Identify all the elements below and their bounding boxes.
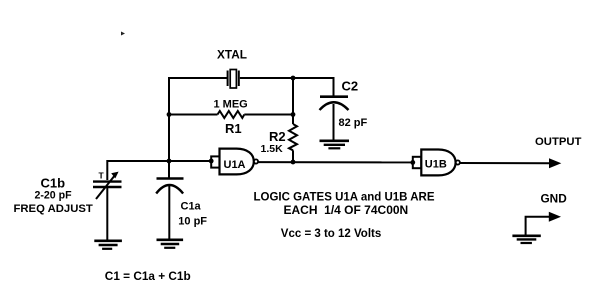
ground: GND symbol with arrow — [512, 212, 561, 243]
U1A output bubble — [254, 159, 258, 163]
wire: right rail lower (R2 to output wire) — [292, 150, 294, 162]
wire: gate input row (C1b corner to U1A) — [107, 161, 211, 180]
ground: below C1b — [94, 241, 122, 249]
node: crystal/R2/C2 junction — [291, 76, 296, 81]
svg-text:1.5K: 1.5K — [261, 143, 284, 155]
capacitor C2 — [320, 97, 349, 140]
node: R2/output junction — [291, 160, 296, 165]
U1A tied-input box — [211, 156, 219, 167]
svg-text:XTAL: XTAL — [217, 48, 247, 62]
wire: R1 row left segment — [168, 114, 218, 116]
svg-text:C1a: C1a — [181, 201, 202, 213]
svg-text:U1A: U1A — [224, 159, 246, 171]
arrowhead OUTPUT — [549, 158, 561, 168]
U1B tied-input box — [413, 157, 422, 168]
wire: right rail upper (junction to R2) — [292, 78, 294, 124]
node: U1B input junction — [410, 160, 415, 165]
svg-text:U1B: U1B — [425, 159, 447, 171]
svg-text:T: T — [99, 171, 105, 181]
svg-text:R2: R2 — [269, 129, 286, 144]
node: U1A input junction — [209, 159, 214, 164]
svg-text:C2: C2 — [342, 79, 359, 94]
crystal XTAL — [228, 70, 239, 89]
wire: crystal row left segment — [168, 77, 227, 79]
svg-text:C1 = C1a + C1b: C1 = C1a + C1b — [105, 269, 191, 283]
svg-text:10 pF: 10 pF — [178, 216, 207, 228]
wire: C2 branch corner down — [333, 77, 335, 96]
wire: U1B output to arrow — [460, 162, 552, 164]
svg-text:Vcc = 3 to 12 Volts: Vcc = 3 to 12 Volts — [281, 228, 381, 240]
wire: crystal row right segment — [240, 77, 335, 79]
op-amp U1A (NAND gate body) — [220, 149, 254, 175]
wire: U1A output to U1B input — [258, 161, 413, 163]
svg-text:2-20 pF: 2-20 pF — [35, 190, 73, 202]
svg-text:OUTPUT: OUTPUT — [535, 136, 582, 148]
ground: below C2 — [320, 141, 350, 149]
node: input row / C1a rail junction — [167, 159, 172, 164]
svg-text:1 MEG: 1 MEG — [214, 99, 248, 111]
svg-text:R1: R1 — [225, 121, 242, 136]
svg-text:GND: GND — [541, 192, 568, 206]
U1B output bubble — [456, 160, 460, 164]
capacitor C1b (variable) — [93, 172, 122, 240]
svg-text:82 pF: 82 pF — [339, 117, 368, 129]
svg-text:C1b: C1b — [41, 175, 66, 190]
wire: R1 row right segment — [244, 114, 293, 116]
svg-text:LOGIC GATES U1A and U1B ARE: LOGIC GATES U1A and U1B ARE — [254, 192, 435, 204]
wire: top loop left vertical rail — [168, 77, 170, 178]
svg-text:EACH 1/4 OF 74C00N: EACH 1/4 OF 74C00N — [284, 203, 409, 217]
stray mark top-left — [121, 32, 125, 36]
op-amp U1B (NAND gate body) — [421, 150, 455, 176]
node: R1 left junction — [167, 112, 172, 117]
ground: below C1a — [157, 240, 184, 248]
resistor R2 — [289, 124, 297, 150]
node: R1 right junction — [291, 112, 296, 117]
svg-text:FREQ ADJUST: FREQ ADJUST — [14, 203, 93, 215]
resistor R1 — [218, 111, 245, 118]
capacitor C1a — [156, 179, 183, 240]
